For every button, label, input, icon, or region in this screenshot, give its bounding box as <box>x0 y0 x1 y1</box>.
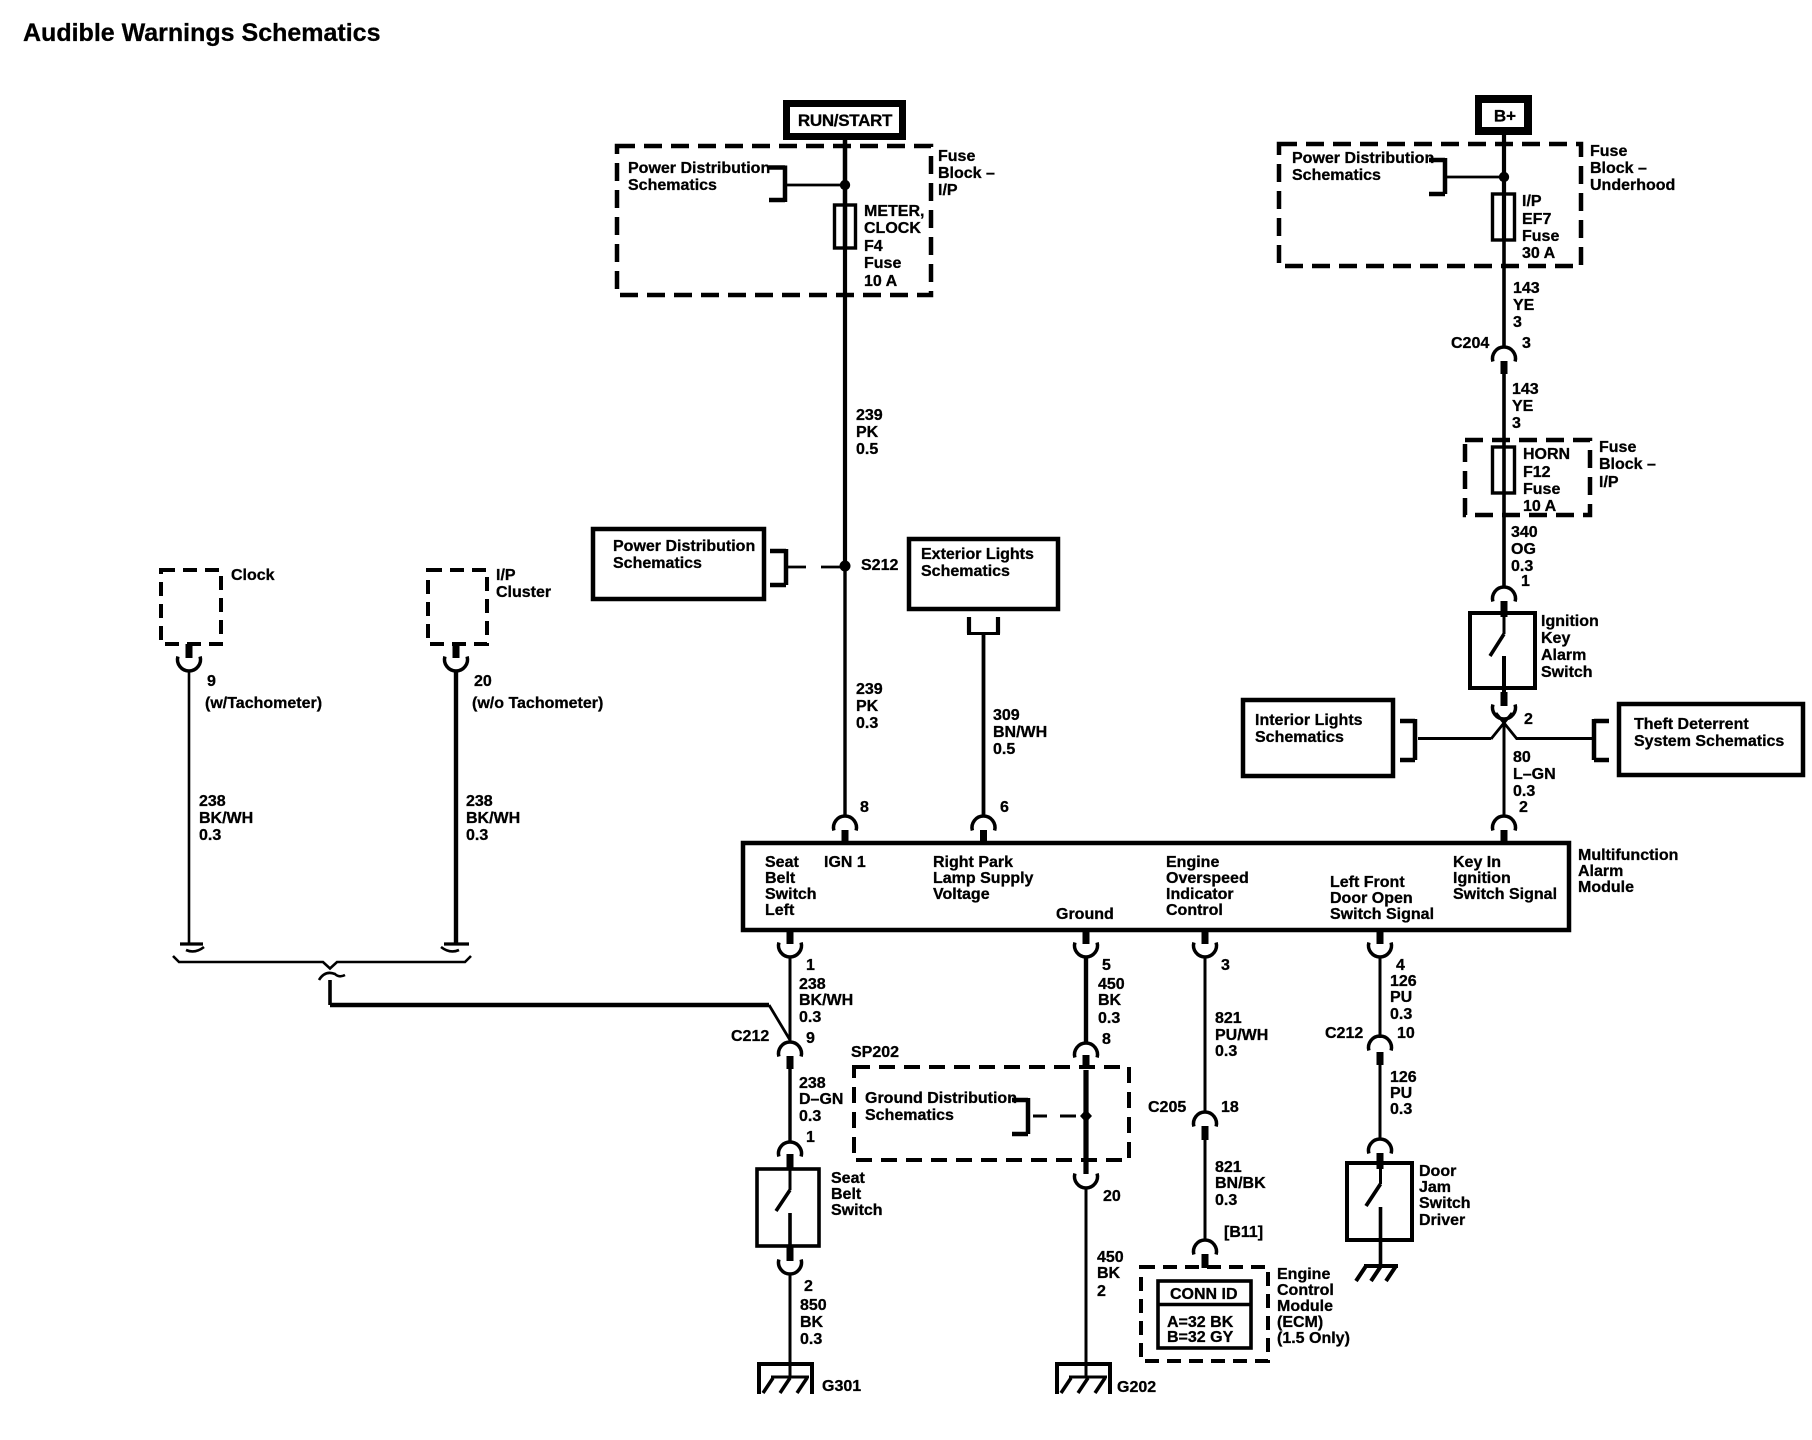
svg-text:Alarm: Alarm <box>1541 647 1586 664</box>
svg-text:C205: C205 <box>1148 1099 1186 1116</box>
svg-text:0.5: 0.5 <box>856 441 878 458</box>
svg-text:C212: C212 <box>1325 1025 1363 1042</box>
svg-text:0.3: 0.3 <box>466 827 488 844</box>
svg-text:3: 3 <box>1221 957 1230 974</box>
svg-text:G301: G301 <box>822 1378 861 1395</box>
svg-text:238: 238 <box>199 793 226 810</box>
svg-text:Block –: Block – <box>1599 456 1656 473</box>
wire fuse F4 down to S212, circuit 239 PK 0.5 <box>843 248 847 566</box>
svg-text:8: 8 <box>860 799 869 816</box>
wire RUN/START down to fuse F4 <box>843 138 848 205</box>
svg-text:2: 2 <box>1524 711 1533 728</box>
svg-text:OG: OG <box>1511 541 1536 558</box>
svg-text:2: 2 <box>804 1278 813 1295</box>
connector pin 9 below Clock <box>186 644 193 658</box>
box Theft Deterrent System Schematics <box>1619 704 1803 775</box>
wire down to pin 2, circuit 80 L-GN 0.3 <box>1503 722 1506 816</box>
svg-text:CONN ID: CONN ID <box>1170 1286 1238 1303</box>
svg-text:126: 126 <box>1390 1069 1417 1086</box>
switch Ignition Key Alarm Switch <box>1470 613 1535 688</box>
svg-text:0.3: 0.3 <box>800 1331 822 1348</box>
svg-text:Schematics: Schematics <box>1255 729 1344 746</box>
power symbol RUN/START <box>783 100 906 140</box>
wire terminator left <box>180 942 203 945</box>
pigtail under brace <box>319 973 345 980</box>
svg-text:Switch: Switch <box>1541 664 1593 681</box>
svg-text:Driver: Driver <box>1419 1212 1465 1229</box>
svg-text:PK: PK <box>856 698 879 715</box>
bracket left of Theft Deterrent box <box>1594 719 1609 760</box>
svg-text:Schematics: Schematics <box>865 1107 954 1124</box>
wire merge down and right to C212 <box>328 980 332 1005</box>
svg-text:0.3: 0.3 <box>1390 1006 1412 1023</box>
svg-text:Control: Control <box>1277 1282 1334 1299</box>
svg-text:Schematics: Schematics <box>613 555 702 572</box>
svg-text:3: 3 <box>1513 314 1522 331</box>
svg-text:Engine: Engine <box>1277 1266 1330 1283</box>
connector pin 5 MAM bottom <box>1083 930 1090 944</box>
svg-text:Theft Deterrent: Theft Deterrent <box>1634 716 1749 733</box>
svg-text:Lamp Supply: Lamp Supply <box>933 870 1034 887</box>
svg-text:BN/WH: BN/WH <box>993 724 1047 741</box>
connector pin 4 MAM bottom <box>1377 930 1384 944</box>
splice S212 junction dot <box>840 561 851 572</box>
svg-text:Key In: Key In <box>1453 854 1501 871</box>
svg-text:YE: YE <box>1513 297 1535 314</box>
svg-text:3: 3 <box>1512 415 1521 432</box>
svg-text:Jam: Jam <box>1419 1179 1451 1196</box>
svg-text:2: 2 <box>1519 799 1528 816</box>
svg-text:(1.5 Only): (1.5 Only) <box>1277 1330 1350 1347</box>
svg-text:BK/WH: BK/WH <box>199 810 253 827</box>
svg-text:I/P: I/P <box>1522 193 1542 210</box>
svg-text:Door Open: Door Open <box>1330 890 1413 907</box>
svg-text:0.3: 0.3 <box>799 1108 821 1125</box>
svg-text:B=32 GY: B=32 GY <box>1167 1329 1234 1346</box>
svg-text:PU: PU <box>1390 1085 1412 1102</box>
svg-text:10: 10 <box>1397 1025 1415 1042</box>
svg-text:0.3: 0.3 <box>1513 783 1535 800</box>
svg-text:Block –: Block – <box>938 165 995 182</box>
wire B+ down to fuse EF7 <box>1502 135 1506 194</box>
svg-text:Multifunction: Multifunction <box>1578 847 1678 864</box>
svg-text:Interior Lights: Interior Lights <box>1255 712 1363 729</box>
ground G202 <box>1055 1364 1112 1394</box>
svg-text:Fuse: Fuse <box>1523 481 1560 498</box>
svg-text:239: 239 <box>856 407 883 424</box>
svg-text:Module: Module <box>1277 1298 1333 1315</box>
svg-text:(ECM): (ECM) <box>1277 1314 1323 1331</box>
wire down to G301, circuit 850 BK 0.3 <box>789 1275 792 1377</box>
svg-text:850: 850 <box>800 1297 827 1314</box>
svg-text:Underhood: Underhood <box>1590 177 1675 194</box>
svg-text:4: 4 <box>1396 957 1405 974</box>
svg-text:YE: YE <box>1512 398 1534 415</box>
svg-text:HORN: HORN <box>1523 446 1570 463</box>
svg-text:Schematics: Schematics <box>1292 167 1381 184</box>
CONN ID table <box>1158 1281 1251 1348</box>
svg-text:G202: G202 <box>1117 1379 1156 1396</box>
svg-text:Door: Door <box>1419 1163 1456 1180</box>
fuse F4 METER CLOCK 10A <box>843 205 848 248</box>
fuse EF7 I/P 30A <box>1502 194 1506 240</box>
box I/P Cluster (dashed) <box>428 570 487 644</box>
connector pin 20 below I/P Cluster <box>453 644 460 658</box>
svg-text:Engine: Engine <box>1166 854 1219 871</box>
svg-text:BK/WH: BK/WH <box>799 992 853 1009</box>
svg-text:Power Distribution: Power Distribution <box>1292 150 1434 167</box>
svg-text:Cluster: Cluster <box>496 584 551 601</box>
svg-text:EF7: EF7 <box>1522 211 1551 228</box>
wire pin4 down to C212, circuit 126 PU 0.3 <box>1379 958 1382 1038</box>
svg-text:I/P: I/P <box>938 182 958 199</box>
svg-text:Overspeed: Overspeed <box>1166 870 1249 887</box>
svg-text:0.3: 0.3 <box>1215 1043 1237 1060</box>
svg-text:5: 5 <box>1102 957 1111 974</box>
svg-text:9: 9 <box>806 1030 815 1047</box>
wire fuse F12 down to ignition key alarm switch, circuit 340 OG 0.3 <box>1502 493 1506 587</box>
svg-text:(w/Tachometer): (w/Tachometer) <box>205 695 322 712</box>
svg-text:S212: S212 <box>861 557 898 574</box>
svg-text:9: 9 <box>207 673 216 690</box>
svg-text:Ignition: Ignition <box>1541 613 1599 630</box>
svg-text:C204: C204 <box>1451 335 1489 352</box>
svg-text:Exterior Lights: Exterior Lights <box>921 546 1034 563</box>
svg-text:450: 450 <box>1098 976 1125 993</box>
box Exterior Lights Schematics <box>909 539 1058 609</box>
svg-text:(w/o Tachometer): (w/o Tachometer) <box>472 695 603 712</box>
svg-text:Belt: Belt <box>765 870 796 887</box>
svg-text:821: 821 <box>1215 1010 1242 1027</box>
svg-text:Seat: Seat <box>765 854 799 871</box>
module Multifunction Alarm Module box <box>743 843 1569 930</box>
svg-text:238: 238 <box>466 793 493 810</box>
svg-text:Belt: Belt <box>831 1186 862 1203</box>
box Interior Lights Schematics <box>1243 700 1393 776</box>
bracket to power distribution schematics (center top) <box>769 166 843 203</box>
wire to Theft Deterrent System Schematics <box>1516 737 1594 740</box>
box Power Distribution Schematics (middle) <box>593 529 764 599</box>
svg-text:Fuse: Fuse <box>1590 143 1627 160</box>
svg-text:Fuse: Fuse <box>864 255 901 272</box>
svg-text:IGN 1: IGN 1 <box>824 854 866 871</box>
svg-text:20: 20 <box>1103 1188 1121 1205</box>
svg-text:System Schematics: System Schematics <box>1634 733 1784 750</box>
bracket to power distribution (right top) <box>1429 158 1502 194</box>
wire pin3 down to C205, circuit 821 PU/WH 0.3 <box>1204 958 1207 1112</box>
wire pin 20 down to G202, circuit 450 BK 2 <box>1085 1188 1088 1377</box>
svg-text:Switch Signal: Switch Signal <box>1453 886 1557 903</box>
svg-text:0.5: 0.5 <box>993 741 1015 758</box>
svg-text:METER,: METER, <box>864 203 924 220</box>
wire pin5 down, circuit 450 BK 0.3 <box>1084 958 1088 1043</box>
svg-text:BK: BK <box>1098 992 1122 1009</box>
connector pin 2 below ignition key alarm switch <box>1501 692 1508 706</box>
svg-text:Audible Warnings Schematics: Audible Warnings Schematics <box>23 19 380 47</box>
svg-text:Switch: Switch <box>765 886 817 903</box>
svg-text:126: 126 <box>1390 973 1417 990</box>
svg-text:Switch: Switch <box>1419 1195 1471 1212</box>
svg-text:Schematics: Schematics <box>921 563 1010 580</box>
svg-text:BK: BK <box>800 1314 824 1331</box>
switch Door Jam Switch Driver <box>1347 1163 1412 1240</box>
svg-text:BK: BK <box>1097 1265 1121 1282</box>
svg-text:340: 340 <box>1511 524 1538 541</box>
connector pin 2 below seat belt switch <box>787 1247 794 1261</box>
svg-text:Ground: Ground <box>1056 906 1114 923</box>
wire terminator right <box>444 942 469 945</box>
connector pin 1 MAM bottom <box>787 930 794 944</box>
junction dot (right top) <box>1499 172 1509 182</box>
svg-text:Left: Left <box>765 902 795 919</box>
svg-text:I/P: I/P <box>1599 474 1619 491</box>
bracket from Power Distribution box to S212 <box>770 549 841 585</box>
svg-text:Clock: Clock <box>231 567 275 584</box>
svg-text:1: 1 <box>806 1129 815 1146</box>
fuse F12 HORN 10A <box>1502 447 1506 493</box>
svg-text:B+: B+ <box>1494 107 1516 126</box>
svg-text:10 A: 10 A <box>864 273 898 290</box>
fuse block underhood dashed box <box>1279 144 1581 266</box>
svg-text:18: 18 <box>1221 1099 1239 1116</box>
svg-text:BK/WH: BK/WH <box>466 810 520 827</box>
svg-text:239: 239 <box>856 681 883 698</box>
svg-text:Fuse: Fuse <box>1599 439 1636 456</box>
wire pin1 down to C212, circuit 238 BK/WH 0.3 <box>789 958 792 1042</box>
svg-text:D–GN: D–GN <box>799 1091 843 1108</box>
svg-text:30 A: 30 A <box>1522 245 1556 262</box>
svg-text:20: 20 <box>474 673 492 690</box>
connector pin 3 MAM bottom <box>1202 930 1209 944</box>
svg-text:Ignition: Ignition <box>1453 870 1511 887</box>
bracket right of Interior Lights box <box>1400 719 1415 760</box>
wire C212 down to seat belt switch, circuit 238 D-GN 0.3 <box>788 1069 791 1142</box>
svg-text:Voltage: Voltage <box>933 886 990 903</box>
svg-text:0.3: 0.3 <box>1215 1192 1237 1209</box>
svg-text:238: 238 <box>799 976 826 993</box>
fuse block I/P dashed box (center) <box>617 146 931 295</box>
bracket below Exterior Lights box <box>969 617 998 634</box>
wire C205 down to ECM, circuit 821 BN/BK 0.3 <box>1204 1140 1207 1240</box>
svg-text:309: 309 <box>993 707 1020 724</box>
svg-text:F4: F4 <box>864 238 883 255</box>
svg-text:L–GN: L–GN <box>1513 766 1556 783</box>
junction dot at fuse block I/P tap <box>840 180 850 190</box>
svg-text:80: 80 <box>1513 749 1531 766</box>
svg-text:6: 6 <box>1000 799 1009 816</box>
wire S212 down to pin 8, circuit 239 PK 0.3 <box>843 566 846 816</box>
svg-text:0.3: 0.3 <box>1390 1101 1412 1118</box>
svg-text:PU/WH: PU/WH <box>1215 1027 1268 1044</box>
svg-text:PU: PU <box>1390 989 1412 1006</box>
bracket ground distribution to trunk <box>1012 1098 1076 1134</box>
svg-text:821: 821 <box>1215 1159 1242 1176</box>
svg-text:0.3: 0.3 <box>799 1009 821 1026</box>
svg-text:143: 143 <box>1513 280 1540 297</box>
options merge brace <box>173 956 471 969</box>
svg-text:Switch: Switch <box>831 1202 883 1219</box>
svg-text:Fuse: Fuse <box>938 148 975 165</box>
fuse block I/P dashed box (right) <box>1465 440 1590 515</box>
svg-text:CLOCK: CLOCK <box>864 220 921 237</box>
trunk wire through SP202 <box>1083 1070 1088 1174</box>
svg-text:0.3: 0.3 <box>1098 1010 1120 1027</box>
svg-text:143: 143 <box>1512 381 1539 398</box>
svg-text:Indicator: Indicator <box>1166 886 1234 903</box>
ground distribution dashed box SP202 <box>854 1067 1129 1160</box>
power symbol B+ <box>1475 95 1532 135</box>
svg-text:Fuse: Fuse <box>1522 228 1559 245</box>
wire I/P Cluster pin 20 down, circuit 238 BK/WH 0.3 <box>454 672 458 943</box>
wire X crossing junction below ignition switch <box>1491 713 1512 739</box>
connector above door jam switch <box>1369 1139 1392 1154</box>
svg-text:PK: PK <box>856 424 879 441</box>
svg-text:C212: C212 <box>731 1028 769 1045</box>
connector pin 20 below SP202 <box>1075 1174 1098 1189</box>
wire C212 down to door jam switch, circuit 126 PU 0.3 <box>1379 1065 1382 1139</box>
ground G301 <box>757 1364 814 1394</box>
switch Seat Belt Switch <box>757 1169 819 1246</box>
svg-text:0.3: 0.3 <box>856 715 878 732</box>
svg-text:Schematics: Schematics <box>628 177 717 194</box>
svg-text:Alarm: Alarm <box>1578 863 1623 880</box>
svg-text:BN/BK: BN/BK <box>1215 1175 1266 1192</box>
chassis ground below door jam switch <box>1356 1266 1398 1281</box>
svg-text:0.3: 0.3 <box>199 827 221 844</box>
module Engine Control Module dashed box <box>1141 1267 1268 1361</box>
svg-text:Power Distribution: Power Distribution <box>613 538 755 555</box>
svg-text:Control: Control <box>1166 902 1223 919</box>
svg-text:Ground Distribution: Ground Distribution <box>865 1090 1017 1107</box>
wire C204 down to fuse F12, circuit 143 YE 3 <box>1502 374 1506 447</box>
svg-text:3: 3 <box>1522 335 1531 352</box>
svg-text:F12: F12 <box>1523 464 1551 481</box>
svg-text:Key: Key <box>1541 630 1570 647</box>
svg-text:450: 450 <box>1097 1249 1124 1266</box>
svg-text:8: 8 <box>1102 1031 1111 1048</box>
wire Exterior Lights down to pin 6, circuit 309 BN/WH 0.5 <box>982 633 986 816</box>
svg-text:Module: Module <box>1578 879 1634 896</box>
wire to Interior Lights Schematics <box>1418 737 1491 740</box>
wire Clock pin 9 down, circuit 238 BK/WH 0.3 <box>188 672 191 943</box>
svg-text:Seat: Seat <box>831 1170 865 1187</box>
svg-text:238: 238 <box>799 1075 826 1092</box>
svg-text:[B11]: [B11] <box>1224 1224 1263 1241</box>
svg-text:I/P: I/P <box>496 567 516 584</box>
junction diamond on trunk <box>1080 1110 1092 1123</box>
svg-text:Right Park: Right Park <box>933 854 1013 871</box>
svg-text:Left Front: Left Front <box>1330 874 1405 891</box>
svg-text:10 A: 10 A <box>1523 498 1557 515</box>
svg-text:Block –: Block – <box>1590 160 1647 177</box>
svg-text:SP202: SP202 <box>851 1044 899 1061</box>
svg-text:2: 2 <box>1097 1283 1106 1300</box>
svg-text:Switch Signal: Switch Signal <box>1330 906 1434 923</box>
svg-text:Power Distribution: Power Distribution <box>628 160 770 177</box>
box Clock (dashed) <box>161 570 221 644</box>
svg-text:RUN/START: RUN/START <box>798 111 893 130</box>
svg-text:1: 1 <box>806 957 815 974</box>
svg-text:1: 1 <box>1521 573 1530 590</box>
wire fuse EF7 down to C204, circuit 143 YE 3 <box>1502 240 1506 347</box>
